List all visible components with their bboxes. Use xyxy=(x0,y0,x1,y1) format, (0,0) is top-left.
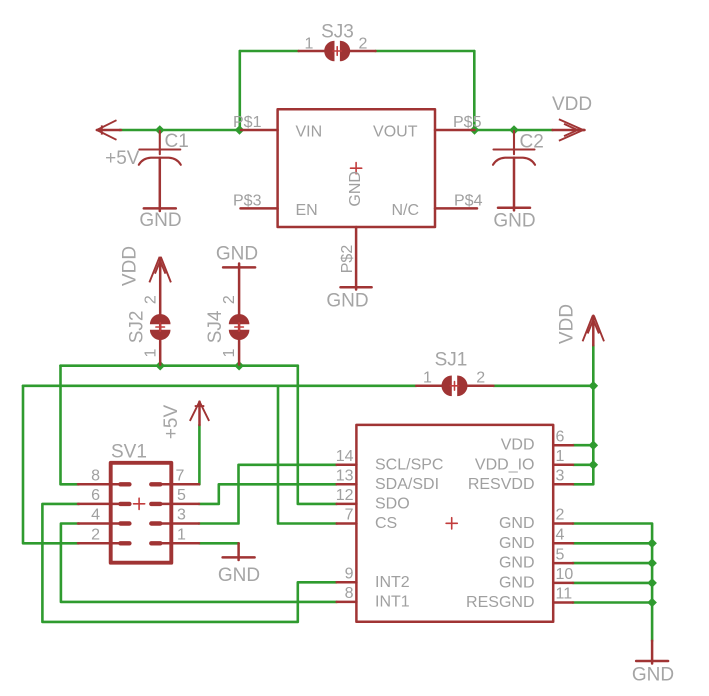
svg-text:7: 7 xyxy=(345,507,354,524)
svg-text:C1: C1 xyxy=(165,131,189,152)
wire SV1 pin 4 to INT1 xyxy=(61,524,337,602)
svg-text:P$1: P$1 xyxy=(233,114,262,131)
svg-text:RESVDD: RESVDD xyxy=(468,476,535,493)
svg-text:GND: GND xyxy=(499,535,535,552)
pin P$4 xyxy=(435,207,477,210)
svg-text:SJ2: SJ2 xyxy=(127,311,148,344)
svg-text:VDD: VDD xyxy=(120,246,141,286)
origin cross SJ4 xyxy=(235,323,244,331)
wire P$5 to VDD arrow xyxy=(475,129,553,132)
ground symbol bottom right xyxy=(636,641,668,664)
svg-text:GND: GND xyxy=(326,291,368,312)
svg-text:P$2: P$2 xyxy=(339,245,356,274)
svg-text:VDD_IO: VDD_IO xyxy=(475,456,535,473)
pin-header SV1 stubs xyxy=(78,484,199,543)
svg-text:4: 4 xyxy=(556,527,565,544)
svg-text:2: 2 xyxy=(91,526,100,543)
wire IC pin 10 to GND bus xyxy=(573,582,652,585)
svg-text:6: 6 xyxy=(556,428,565,445)
pin P$2 xyxy=(355,227,358,290)
wire SV1 pin 5 to SDA/SDI xyxy=(199,484,337,504)
svg-text:2: 2 xyxy=(556,507,565,524)
svg-text:14: 14 xyxy=(336,448,354,465)
svg-text:GND: GND xyxy=(499,555,535,572)
svg-text:SCL/SPC: SCL/SPC xyxy=(375,456,443,473)
svg-text:13: 13 xyxy=(336,468,354,485)
wire SJ3 right segment xyxy=(376,50,475,53)
svg-text:6: 6 xyxy=(91,487,100,504)
wire SDO net left drop to SV1 pin 8 xyxy=(61,366,80,485)
solder jumper SJ4 pad 2 xyxy=(229,314,250,324)
svg-text:N/C: N/C xyxy=(391,202,419,219)
svg-text:GND: GND xyxy=(499,574,535,591)
pin-header SV1 pad pin 7 xyxy=(149,482,162,486)
junction GND bus pin 4 xyxy=(647,539,657,549)
pin-header SV1 pad pin 5 xyxy=(149,502,162,506)
wire +5V rail to P$1 xyxy=(120,129,241,132)
solder jumper SJ3 stubs xyxy=(299,50,376,53)
pin-header SV1 pad pin 1 xyxy=(149,541,162,545)
svg-text:1: 1 xyxy=(177,526,186,543)
solder jumper SJ4 pin line xyxy=(238,264,241,365)
svg-text:GND: GND xyxy=(493,211,535,232)
junction at P$5 xyxy=(470,125,480,135)
svg-text:8: 8 xyxy=(91,467,100,484)
svg-text:7: 7 xyxy=(176,467,185,484)
wire SJ3 left segment xyxy=(240,50,299,53)
svg-text:8: 8 xyxy=(345,585,354,602)
svg-text:RESGND: RESGND xyxy=(466,594,534,611)
ground symbol below SV1 pin 1 xyxy=(223,543,255,560)
svg-text:SJ3: SJ3 xyxy=(321,22,354,43)
accelerometer IC box xyxy=(356,425,553,622)
svg-text:INT1: INT1 xyxy=(375,593,410,610)
svg-text:VIN: VIN xyxy=(296,124,323,141)
pin P$3 xyxy=(241,207,278,210)
junction at P$1 xyxy=(235,125,245,135)
svg-text:EN: EN xyxy=(296,202,318,219)
solder jumper SJ2 pad 2 xyxy=(150,314,171,324)
ground bar above SJ4 (flipped GND) xyxy=(223,266,255,269)
svg-text:GND: GND xyxy=(499,515,535,532)
solder jumper SJ3 pad 2 xyxy=(340,41,350,62)
wire CS net mid drop to IC CS xyxy=(278,386,337,524)
junction at IC pin 6 xyxy=(589,440,599,450)
ground bar below P$2 xyxy=(341,286,372,289)
wire SJ3 left vertical xyxy=(239,51,242,130)
junction GND bus pin 5 xyxy=(647,558,657,568)
IC left pin stubs 14 13 12 7 9 8 xyxy=(337,465,357,602)
wire +5V to SV1 pin 7 xyxy=(198,425,201,484)
svg-text:9: 9 xyxy=(345,566,354,583)
svg-text:P$4: P$4 xyxy=(454,193,483,210)
pin P$5 xyxy=(435,129,475,132)
wire SDO net right drop to IC SDO xyxy=(298,366,337,504)
svg-text:SJ1: SJ1 xyxy=(435,350,468,371)
solder jumper SJ2 pin line xyxy=(159,258,162,365)
wire SV1 pin 6 to INT2 xyxy=(42,504,336,622)
pin-header SV1 pad pin 4 xyxy=(118,521,131,525)
wire SJ3 right vertical xyxy=(473,51,476,130)
svg-text:2: 2 xyxy=(143,295,160,304)
svg-text:4: 4 xyxy=(91,507,100,524)
pin-header SV1 pad pin 3 xyxy=(149,521,162,525)
svg-text:1: 1 xyxy=(423,370,432,387)
svg-text:INT2: INT2 xyxy=(375,574,410,591)
voltage regulator IC1 box xyxy=(278,109,435,227)
svg-text:P$3: P$3 xyxy=(233,193,262,210)
svg-text:12: 12 xyxy=(336,487,354,504)
svg-text:SV1: SV1 xyxy=(111,442,147,463)
svg-text:3: 3 xyxy=(556,468,565,485)
svg-text:SJ4: SJ4 xyxy=(205,310,226,343)
junction at SJ2 pin 1 xyxy=(155,361,165,371)
svg-text:5: 5 xyxy=(556,546,565,563)
junction at C1 top xyxy=(155,125,165,135)
pin-header SV1 pad pin 2 xyxy=(118,541,131,545)
pin-header SV1 box xyxy=(111,463,172,563)
svg-text:VDD: VDD xyxy=(552,94,592,115)
wire SV1 pin 3 to SCL/SPC xyxy=(199,465,337,524)
RED xyxy=(78,51,668,664)
VDD arrow above SJ2 xyxy=(149,257,171,283)
IC right pin stubs 6 1 3 2 4 5 10 11 xyxy=(553,445,573,602)
pin-header SV1 pad pin 8 xyxy=(118,482,131,486)
origin cross SV1 xyxy=(134,498,145,509)
svg-text:2: 2 xyxy=(476,370,485,387)
svg-text:1: 1 xyxy=(305,36,314,53)
svg-text:5: 5 xyxy=(177,487,186,504)
svg-text:P$5: P$5 xyxy=(453,114,482,131)
origin cross regulator xyxy=(351,163,362,174)
solder jumper SJ1 stubs xyxy=(416,385,493,388)
origin cross SJ3 xyxy=(333,47,341,56)
capacitor C2 xyxy=(493,131,535,165)
VDD arrow at P$5 rail xyxy=(553,129,585,132)
svg-text:CS: CS xyxy=(375,515,397,532)
origin cross SJ1 xyxy=(450,382,458,391)
wire SV1 pin 1 to GND xyxy=(199,542,239,545)
wire IC pin 4 to GND bus xyxy=(573,542,652,545)
svg-text:GND: GND xyxy=(218,565,260,586)
junction at C2 top xyxy=(509,125,519,135)
wire IC pin 11 to GND bus xyxy=(573,601,652,604)
svg-text:GND: GND xyxy=(139,210,181,231)
origin cross IC xyxy=(446,518,457,529)
solder jumper SJ1 pad 2 xyxy=(457,376,467,397)
svg-text:VDD: VDD xyxy=(557,304,578,344)
+5V arrow at left rail xyxy=(97,129,121,132)
wire CS net left drop to SV1 pin 2 xyxy=(23,386,79,544)
wire VDD vertical to IC pins 6 1 3 xyxy=(573,345,593,484)
wire CS net horizontal (line2) xyxy=(23,384,416,387)
wire IC pin 5 to GND bus xyxy=(573,562,652,565)
junction GND bus pin 10 xyxy=(647,578,657,588)
junction at IC pin 1 xyxy=(589,460,599,470)
svg-text:2: 2 xyxy=(221,295,238,304)
svg-text:1: 1 xyxy=(143,348,160,357)
svg-text:2: 2 xyxy=(359,36,368,53)
svg-text:VDD: VDD xyxy=(501,437,535,454)
pin-header SV1 pad pin 6 xyxy=(118,502,131,506)
solder jumper SJ2 pad 1 xyxy=(150,330,171,340)
ground bar below C1 xyxy=(144,208,176,211)
svg-text:10: 10 xyxy=(556,566,574,583)
solder jumper SJ1 pad 1 xyxy=(441,376,451,397)
svg-text:1: 1 xyxy=(556,448,565,465)
junction at SJ4 pin 1 xyxy=(234,361,244,371)
junction GND bus pin 11 xyxy=(647,598,657,608)
solder jumper SJ4 pad 1 xyxy=(229,330,250,340)
svg-text:SDA/SDI: SDA/SDI xyxy=(375,476,439,493)
origin cross SJ2 xyxy=(156,323,165,331)
svg-text:C2: C2 xyxy=(520,132,544,153)
svg-text:GND: GND xyxy=(632,665,674,686)
svg-text:VOUT: VOUT xyxy=(373,124,418,141)
ground bar below C2 xyxy=(498,208,530,211)
svg-text:GND: GND xyxy=(347,171,364,207)
+5V arrow above SV1 pin 7 xyxy=(198,402,201,425)
wire SDO net horizontal (line1) xyxy=(61,364,298,367)
svg-text:11: 11 xyxy=(556,586,573,603)
svg-text:+5V: +5V xyxy=(105,148,140,169)
wire SJ1 pin 2 to VDD node xyxy=(493,384,593,387)
svg-text:SDO: SDO xyxy=(375,495,410,512)
capacitor C1 xyxy=(139,131,181,165)
svg-text:GND: GND xyxy=(216,243,258,264)
VDD arrow right of SJ1 xyxy=(592,316,595,346)
wire IC pin 1 stub xyxy=(573,463,593,466)
wire IC pin 2 to GND bus xyxy=(573,524,652,641)
wire IC pin 6 stub xyxy=(573,444,593,447)
svg-text:+5V: +5V xyxy=(161,405,182,440)
svg-text:1: 1 xyxy=(221,348,238,357)
pin P$1 xyxy=(241,129,278,132)
svg-text:3: 3 xyxy=(177,507,186,524)
junction at SJ1-VDD node xyxy=(589,381,599,391)
solder jumper SJ3 pad 1 xyxy=(324,41,334,62)
